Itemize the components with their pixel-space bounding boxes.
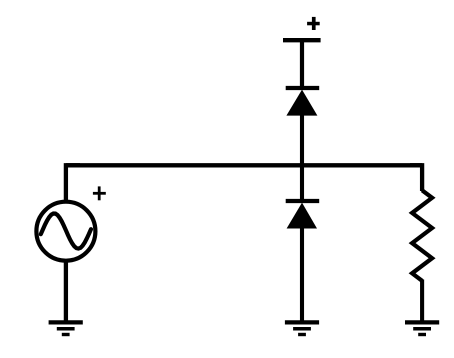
wire: V1 bottom to left ground [64, 261, 68, 321]
wire: D2 anode to middle ground [300, 226, 304, 321]
diode D2 (lower) [286, 201, 320, 229]
wire: node A junction to diode D2 cathode [300, 163, 304, 201]
wire: resistor R1 to right ground [420, 280, 424, 322]
wire: left corner, AC source top to horizontal rail [66, 165, 80, 201]
ground (left) [49, 322, 83, 334]
wire: D1 anode to node A junction [300, 113, 304, 167]
V1 polarity + label [93, 186, 106, 200]
wire: rail right corner down to resistor R1 [410, 165, 422, 191]
diode D1 (upper) [286, 88, 320, 116]
node: + supply terminal bar [283, 38, 321, 42]
resistor R1 [412, 190, 432, 280]
ground (right) [405, 322, 439, 334]
wire: main horizontal rail (node A) [66, 163, 422, 167]
wire: supply terminal to diode D1 cathode [300, 40, 304, 88]
node: + supply terminal label [307, 17, 320, 30]
ground (middle) [285, 322, 319, 334]
ac voltage source V1 [36, 202, 95, 261]
